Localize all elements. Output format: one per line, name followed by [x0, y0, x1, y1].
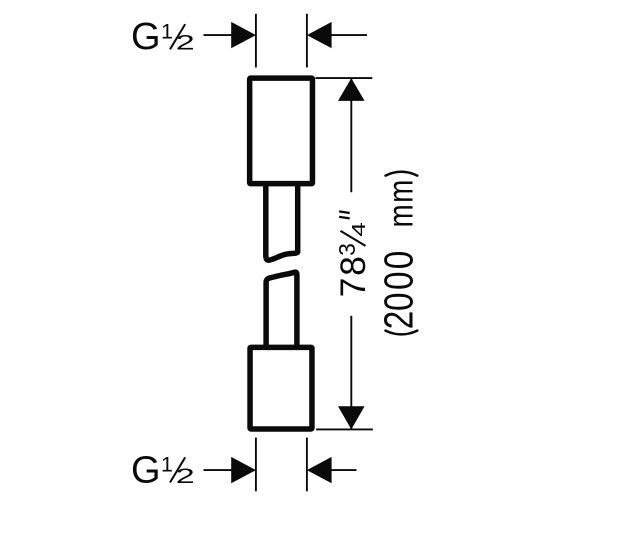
- svg-text:3: 3: [334, 243, 360, 256]
- svg-text:1: 1: [161, 453, 173, 477]
- svg-text:78: 78: [333, 254, 373, 297]
- svg-text:0: 0: [376, 293, 422, 312]
- svg-text:4: 4: [349, 222, 369, 237]
- svg-text:2: 2: [376, 311, 422, 330]
- svg-text:2: 2: [176, 464, 195, 488]
- svg-text:0: 0: [376, 272, 422, 291]
- svg-text:G: G: [131, 16, 161, 58]
- svg-text:m: m: [382, 204, 421, 227]
- svg-text:0: 0: [376, 251, 422, 270]
- svg-text:G: G: [131, 449, 161, 491]
- svg-text:2: 2: [176, 31, 195, 55]
- svg-text:m: m: [382, 180, 421, 203]
- svg-text:1: 1: [161, 20, 173, 44]
